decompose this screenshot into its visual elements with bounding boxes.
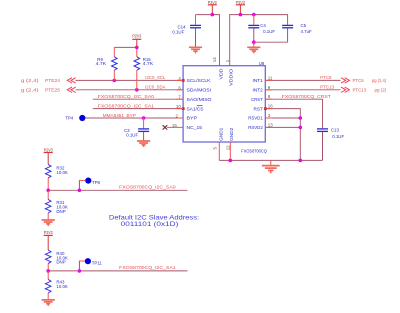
svg-text:VDDIO: VDDIO [229,69,234,86]
resistor R15 [134,47,140,89]
svg-text:I2C0_SDA: I2C0_SDA [145,85,166,90]
note Default I2C Slave Address [109,215,200,229]
power P2V3 SA0 block [44,147,53,164]
IC pin name SA1/CS with overline [187,106,204,112]
svg-text:I2C0_SCL: I2C0_SCL [145,75,166,80]
IC pin name RSVD1 [248,116,263,121]
net label I2C0_SDA [145,85,166,90]
value label C13 0.1UF [331,128,345,139]
svg-text:INT2: INT2 [253,88,264,93]
node junction P2V3 pullups [135,46,139,50]
node junction C4 top [252,13,256,17]
IC pin name SCL/SCLK [187,78,212,83]
wire RSVD2 [265,126,300,128]
node junction TP8 [78,189,82,193]
pin 5 rotated [212,147,217,150]
wire C4/C5 bottom rail [254,41,288,43]
pin 10 [176,104,181,109]
svg-text:pg (2): pg (2) [375,88,387,93]
wire I2C0_SDA [76,89,184,91]
off-page arrow PTE24 [67,78,75,83]
svg-text:P2V3: P2V3 [44,147,53,152]
node junction P2V3/VDD [211,13,215,17]
capacitor C5 [282,25,293,42]
node junction R9/SCL [113,79,117,83]
value label C3 0.1UF [124,128,138,138]
resistor R9 [112,47,118,80]
IC pin name GND2 rotated [229,127,234,140]
svg-text:4.7K: 4.7K [143,61,154,66]
svg-text:11: 11 [268,75,273,80]
svg-text:FXOS8700CQ_I2C_SA1: FXOS8700CQ_I2C_SA1 [98,103,155,108]
off-page text PTC13 pg (2) [353,88,387,93]
ground below IC [262,160,280,172]
svg-text:C13: C13 [331,128,340,133]
wire RSVD1 [265,117,300,119]
no-connect X pin 15 [163,125,184,129]
svg-text:P2V3: P2V3 [236,0,245,5]
value label R43 10.0K [56,280,68,289]
svg-text:TP8: TP8 [92,180,101,185]
wire RST/RSVD vertical [265,109,300,161]
pin 8 [268,94,271,99]
wire GND1 [218,142,220,160]
svg-text:PTC6: PTC6 [320,75,332,80]
test point TP4 [65,115,85,121]
svg-text:FXOS8700CQ_I2C_SA1: FXOS8700CQ_I2C_SA1 [119,265,176,270]
node junction R15/SDA [135,88,139,92]
svg-text:P2V3: P2V3 [208,0,217,5]
net label FXOS8700CQ_I2C_SA1 upper [98,103,155,108]
ground below C4 [247,42,260,52]
IC pin name VDDIO rotated [229,69,234,86]
svg-text:GND1: GND1 [218,127,223,140]
off-page text PTE25 [21,88,61,93]
svg-text:VDD: VDD [218,68,223,80]
pin 1 rotated [225,59,230,62]
IC pin name RST [254,106,263,111]
svg-text:16: 16 [268,104,273,109]
power P2V3 above pullups [132,34,141,48]
node junction TP11 [78,269,82,273]
IC pin name INT1 [253,78,264,83]
net label FXOS8700CQ_CRST [282,94,331,99]
pin 15 [172,123,177,128]
wire INT2/PTC13 [265,89,340,91]
wire GND2 [229,142,231,160]
svg-text:PTC13: PTC13 [320,85,334,90]
svg-text:C14: C14 [177,24,186,29]
svg-text:RSVD2: RSVD2 [248,125,263,130]
node junction RSVD1 [299,116,303,120]
svg-text:SDA/MOSI: SDA/MOSI [187,88,212,93]
resistor R40 [45,250,51,271]
IC pin name GND1 rotated [218,127,223,140]
svg-text:GND2: GND2 [229,127,234,140]
pin 2 [176,114,179,119]
svg-text:P2V3: P2V3 [132,34,141,39]
value label R40 10.0K DNP [56,251,68,265]
power P2V3 top left [208,0,217,15]
pin 13 [268,122,273,127]
svg-text:RSVD1: RSVD1 [248,116,263,121]
resistor R32 [45,164,51,190]
IC U8 part value FXOS8700CQ [241,148,267,153]
svg-text:TP4: TP4 [65,115,74,120]
net label PTC13 [320,85,334,90]
svg-text:C5: C5 [301,23,307,28]
node junction R32/R31 [46,189,50,193]
ground below R43 [42,300,55,305]
wire FXOS8700CQ_I2C_SA0 lower [48,189,187,191]
capacitor C14 [190,15,201,47]
svg-text:FXOS8700CQ_I2C_SA0: FXOS8700CQ_I2C_SA0 [98,94,155,99]
svg-text:TP11: TP11 [92,261,103,266]
node junction RST net/rail [299,159,303,163]
svg-text:FXOS8700CQ: FXOS8700CQ [241,148,267,153]
node junction R40/R43 [46,269,50,273]
svg-text:SA1/CS: SA1/CS [187,106,204,111]
svg-text:FXOS8700CQ_I2C_SA0: FXOS8700CQ_I2C_SA0 [119,185,176,190]
pin square pin16 [264,107,267,110]
wire INT1/PTC6 [265,79,340,81]
wire FXOS8700CQ_CRST [265,99,322,128]
power P2V3 SA1 block [44,230,53,250]
IC pin name RSVD2 [248,125,263,130]
wire VDDIO rail [230,15,288,66]
svg-text:0.1UF: 0.1UF [126,133,138,138]
svg-text:BYP: BYP [187,116,198,121]
svg-text:DNP: DNP [56,209,65,214]
capacitor C4 [248,15,259,43]
net label FXOS8700CQ_I2C_SA0 lower [119,185,176,190]
svg-text:4.7uF: 4.7uF [301,29,313,34]
test point TP8 [79,178,101,191]
value label R15 4.7K [143,57,154,66]
resistor R43 [45,271,51,300]
pin 4 [178,76,181,81]
wire FXOS8700CQ_I2C_SA0 upper [93,98,183,100]
ground below C14 [189,47,202,52]
net label FXOS8700CQ_I2C_SA0 upper [98,94,155,99]
svg-text:DNP: DNP [56,260,65,265]
pin 6 [178,85,181,90]
svg-text:RST: RST [254,106,263,111]
value label C4 0.1UF [260,23,275,34]
svg-text:NC_15: NC_15 [187,125,203,130]
net label PTC6 [320,75,332,80]
wire pin stubs at IC [176,80,272,127]
IC pin name SAO/MISO [187,97,212,102]
svg-text:PTC6: PTC6 [353,78,365,83]
wire FXOS8700CQ_I2C_SA1 upper [93,108,183,110]
svg-text:14: 14 [212,57,217,62]
IC pin name NC_15 [187,125,203,130]
pin 12 rotated [226,145,231,150]
pin 14 rotated [212,57,217,62]
wire MMA8451_BYP [85,117,183,119]
off-page arrow PTE25 [67,87,75,92]
node junction C4 bottom [252,40,256,44]
svg-text:C4: C4 [260,23,266,28]
wire pullup top rail [114,46,137,48]
ground below R31 [42,220,55,225]
svg-text:PTE24: PTE24 [45,78,61,83]
svg-text:SAO/MISO: SAO/MISO [187,97,212,102]
svg-text:g (2,4): g (2,4) [21,88,39,93]
svg-text:0.1UF: 0.1UF [263,29,275,34]
net label MMA8451_BYP [103,113,136,118]
svg-text:10.0K: 10.0K [56,284,68,289]
resistor R31 [45,190,51,219]
wire I2C0_SCL [76,79,184,81]
svg-text:PTC13: PTC13 [353,88,367,93]
capacitor C3 [138,118,149,141]
value label C14 0.1UF [172,24,186,34]
svg-text:MMA8451_BYP: MMA8451_BYP [103,113,136,118]
power P2V3 top right [236,0,245,15]
test point TP11 [79,258,103,271]
IC pin name SDA/MOSI [187,88,212,93]
net label I2C0_SCL [145,75,166,80]
node junction RSVD2 [299,126,303,130]
IC pin name INT2 [253,88,264,93]
pin 9 [268,85,271,90]
off-page arrow PTC13 [341,87,349,92]
IC pin name CRST [251,97,263,102]
capacitor C13 [317,129,328,161]
svg-text:P2V3: P2V3 [44,230,53,235]
pin square pin10 [182,107,185,110]
value label R9 4.7K [96,57,107,66]
svg-text:13: 13 [268,122,273,127]
svg-text:10.0K: 10.0K [56,170,68,175]
pin 3 [268,113,271,118]
off-page text PTE24 [21,78,61,83]
svg-text:U8: U8 [259,61,265,66]
value label C5 4.7uF [301,23,313,34]
svg-text:PTE25: PTE25 [45,88,61,93]
wire FXOS8700CQ_I2C_SA1 lower [48,270,187,272]
svg-text:pg (2,4): pg (2,4) [372,78,387,83]
IC U8 body [183,61,265,142]
pin square pin4 [182,79,185,82]
value label R32 10.0K [56,165,68,174]
svg-text:CRST: CRST [251,97,263,102]
pin 11 [268,75,273,80]
pin 16 [268,104,273,109]
svg-text:SCL/SCLK: SCL/SCLK [187,78,212,83]
value label R31 10.0K DNP [56,200,68,214]
wire ground rail bottom [219,159,322,161]
node junction P2V3/VDDIO [239,13,243,17]
wire VDD rail [196,15,220,66]
IC pin name VDD rotated [218,68,223,80]
svg-text:0011101 (0x1D): 0011101 (0x1D) [121,221,179,228]
net label FXOS8700CQ_I2C_SA1 lower [119,265,176,270]
off-page text PTC6 pg (2,4) [353,78,387,83]
IC pin name BYP [187,116,198,121]
svg-text:g (2,4): g (2,4) [21,78,39,83]
off-page arrow PTC6 [341,78,349,83]
svg-text:FXOS8700CQ_CRST: FXOS8700CQ_CRST [282,94,331,99]
node junction GND2/rail [229,159,233,163]
svg-text:0.1UF: 0.1UF [172,30,184,35]
node junction C3/BYP [142,116,146,120]
svg-text:0.1UF: 0.1UF [332,134,344,139]
ground below C3 [137,141,150,146]
svg-text:4.7K: 4.7K [96,61,107,66]
svg-text:INT1: INT1 [253,78,264,83]
pin 7 [178,95,181,100]
